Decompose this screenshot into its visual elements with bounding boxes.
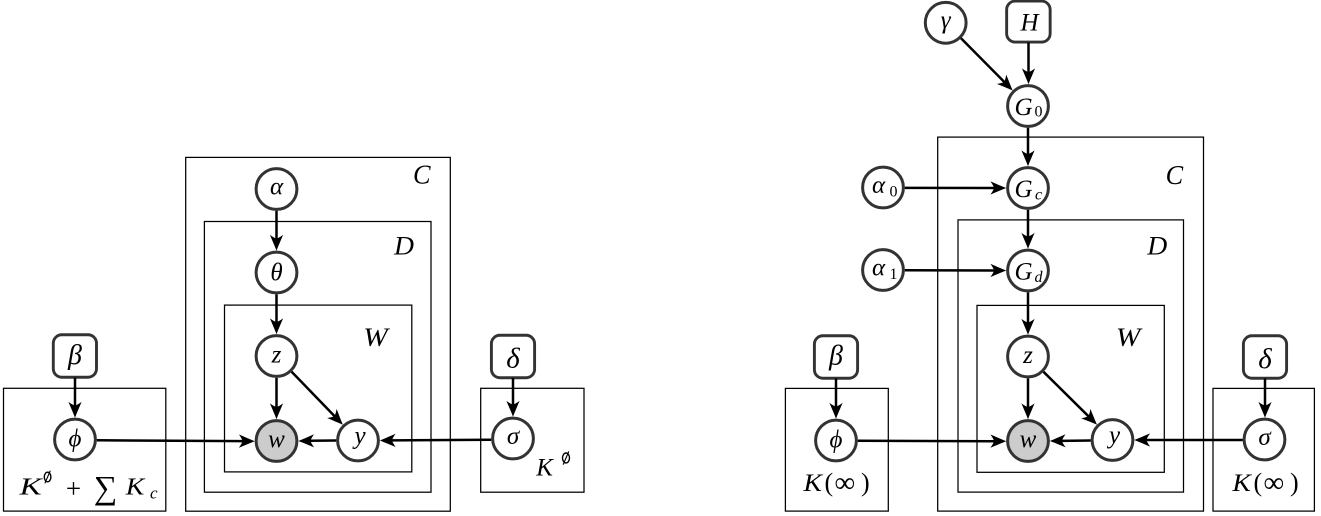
svg-text:∞: ∞ (1264, 467, 1285, 499)
svg-text:c: c (150, 484, 158, 503)
svg-text:K: K (125, 475, 147, 501)
svg-text:y: y (351, 422, 366, 449)
svg-text:γ: γ (941, 7, 952, 34)
svg-text:C: C (1166, 160, 1184, 190)
svg-text:D: D (393, 232, 414, 261)
svg-text:w: w (268, 426, 285, 453)
svg-text:σ: σ (1258, 424, 1272, 451)
svg-text:ϕ: ϕ (830, 427, 843, 454)
svg-text:θ: θ (270, 260, 282, 287)
svg-text:D: D (1146, 232, 1167, 261)
svg-text:1: 1 (890, 266, 898, 283)
svg-text:d: d (1035, 269, 1044, 286)
svg-text:W: W (1116, 323, 1143, 352)
svg-text:α: α (872, 255, 886, 282)
svg-text:β: β (67, 340, 82, 371)
svg-text:K: K (535, 455, 554, 482)
svg-text:0: 0 (890, 183, 898, 200)
svg-text:α: α (872, 172, 886, 199)
svg-text:∞: ∞ (835, 467, 856, 499)
svg-text:z: z (1022, 342, 1033, 369)
svg-text:∑: ∑ (94, 471, 118, 507)
svg-text:K: K (802, 470, 823, 497)
svg-text:δ: δ (506, 343, 520, 375)
svg-text:w: w (1020, 426, 1037, 453)
svg-text:W: W (363, 323, 390, 352)
svg-text:(: ( (1254, 468, 1263, 497)
svg-text:G: G (1014, 176, 1032, 203)
svg-text:σ: σ (507, 423, 521, 450)
svg-text:G: G (1014, 94, 1032, 121)
svg-text:): ) (861, 468, 870, 497)
svg-text:+: + (66, 474, 81, 504)
svg-text:ϕ: ϕ (69, 426, 82, 453)
svg-text:δ: δ (1258, 343, 1272, 375)
svg-text:K: K (1231, 470, 1252, 497)
svg-text:z: z (271, 342, 282, 369)
svg-text:(: ( (825, 468, 834, 497)
svg-text:G: G (1014, 259, 1032, 286)
svg-text:K: K (18, 475, 44, 501)
svg-text:C: C (413, 159, 431, 189)
svg-text:y: y (1106, 422, 1121, 449)
svg-text:): ) (1290, 468, 1299, 497)
svg-text:0: 0 (1035, 104, 1043, 121)
svg-text:c: c (1035, 186, 1042, 203)
svg-text:α: α (270, 174, 284, 201)
svg-text:β: β (828, 341, 843, 372)
svg-text:H: H (1019, 9, 1040, 36)
